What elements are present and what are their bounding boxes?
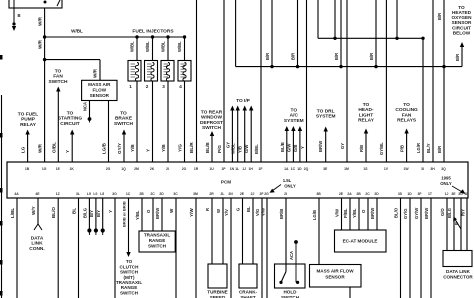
svg-text:BL: BL [246,206,251,212]
ground from ignition switch [12,8,21,31]
transaxle range switch box [139,231,175,252]
wire Y to starting circuit [65,130,74,163]
wire Y right [300,0,307,162]
svg-text:1J: 1J [242,167,246,171]
label to cooling fan relays [395,102,418,124]
svg-text:BL/B: BL/B [280,142,285,152]
svg-text:3S: 3S [398,192,403,196]
svg-text:WINDOW: WINDOW [201,115,223,121]
svg-text:1B: 1B [25,167,30,171]
svg-text:B/Y: B/Y [96,210,101,217]
svg-text:1K: 1K [70,167,75,171]
turbine speed sensor box [207,264,227,298]
wire LG/R [416,37,425,162]
svg-text:1: 1 [129,84,132,89]
svg-text:1L: 1L [235,167,239,171]
label to fuel pump relay [18,111,39,128]
svg-text:1V: 1V [384,167,389,171]
svg-text:W/R: W/R [93,68,98,78]
PCM connector box [7,162,468,198]
svg-text:1A: 1A [284,167,289,171]
svg-text:2G: 2G [264,192,269,196]
left page edge wire [1,95,3,298]
bus B/R horizontal lower [236,66,462,68]
svg-text:3C: 3C [173,192,178,196]
svg-text:1.5L: 1.5L [283,178,292,183]
svg-text:Y: Y [108,210,113,213]
svg-text:BR/W: BR/W [318,141,323,152]
svg-text:B/R: B/R [369,53,374,60]
svg-text:1Z: 1Z [56,192,60,196]
svg-text:ONLY: ONLY [284,183,296,188]
svg-text:L0: L0 [93,192,97,196]
EC-AT module box [335,230,387,252]
svg-text:TO: TO [403,102,410,108]
svg-text:2C: 2C [150,192,155,196]
wire G/W to A/C [286,126,295,162]
wire GY/Y to brake switch [117,130,126,163]
wire drop to upper bus b [395,0,398,40]
svg-text:Y/W: Y/W [189,208,194,217]
svg-text:3E: 3E [451,192,456,196]
svg-text:FAN: FAN [53,74,63,80]
svg-text:GY/Y: GY/Y [117,143,122,154]
svg-text:SENSOR: SENSOR [90,93,110,98]
wire W/R from ignition switch [38,8,45,162]
svg-text:2O: 2O [182,167,187,171]
svg-text:1E: 1E [56,167,61,171]
wire to heated oxygen sensor [455,42,464,67]
svg-text:B/R: B/R [455,54,460,61]
svg-text:2G: 2G [106,167,111,171]
fuel injector 3 [161,37,175,89]
svg-text:2D: 2D [159,192,164,196]
label PCM [221,180,231,185]
svg-text:1U: 1U [209,167,214,171]
svg-text:1G: 1G [42,167,47,171]
wire B/R drop 2 [291,0,300,68]
wire GY/W [414,198,421,298]
svg-text:TO: TO [363,102,370,108]
wire R to turbine sensor [205,198,212,264]
wire B to DLC [453,198,461,251]
svg-text:TO: TO [55,68,62,74]
svg-text:O/BL: O/BL [51,142,56,153]
svg-text:SWITCH: SWITCH [120,290,139,295]
svg-text:CRANK-: CRANK- [239,290,258,295]
svg-text:Y: Y [146,149,151,152]
svg-text:P/B: P/B [400,145,405,152]
svg-text:DATA: DATA [31,235,44,241]
svg-text:1C: 1C [126,192,131,196]
svg-text:BL: BL [72,208,77,214]
svg-text:DATA LINK: DATA LINK [446,269,471,274]
svg-text:ACA: ACA [289,251,294,260]
svg-text:CONNECTOR: CONNECTOR [443,275,473,280]
svg-text:BL/R: BL/R [189,142,194,153]
wire GY to I/P [225,106,234,163]
svg-text:MASS AIR FLOW: MASS AIR FLOW [316,269,354,274]
svg-text:COOLING: COOLING [395,107,418,113]
wire Y/G injector 4 to PCM [178,81,185,162]
svg-text:3O: 3O [112,192,117,196]
fuel injector 1 [128,37,141,89]
wire Y/B injector 1 to PCM [130,81,137,162]
svg-text:BR/W: BR/W [155,208,160,219]
svg-text:1J: 1J [445,192,449,196]
wire W/R to mass air flow sensor [45,60,100,81]
wire drop to upper bus a [333,0,336,40]
wire B/Y to connector a [89,198,98,235]
wire P/BL to EC-AT [343,198,350,230]
svg-text:2B: 2B [356,192,361,196]
mass air flow sensor box (bottom) [310,265,362,288]
svg-text:2L: 2L [221,192,225,196]
svg-text:V/W: V/W [260,208,265,216]
svg-text:Y/B: Y/B [130,144,135,152]
svg-text:SENSOR: SENSOR [325,274,345,279]
svg-text:1995: 1995 [441,176,451,181]
svg-text:SWITCH: SWITCH [148,244,167,249]
svg-text:NCA: NCA [83,102,88,111]
wire W/Y to data link connector [31,198,42,230]
svg-text:2N: 2N [228,192,233,196]
page edge marks [0,55,3,296]
svg-text:W/R: W/R [38,143,43,153]
label to rear window defrost switch [200,109,223,131]
svg-text:FLOW: FLOW [93,88,107,93]
svg-text:3H: 3H [430,167,435,171]
wire LG to fuel pump relay [21,130,30,163]
svg-text:2R: 2R [209,192,214,196]
wire Y/V bottom [224,198,231,298]
svg-text:RANGE: RANGE [149,238,166,243]
wire BL/O left [51,198,58,298]
svg-text:Y/G: Y/G [178,144,183,152]
wire BL [72,198,79,298]
wire P/B to cooling fan relays [400,129,409,163]
wire O to EC-AT [361,198,368,230]
svg-text:2Q: 2Q [304,167,309,171]
svg-text:B/R: B/R [437,146,442,153]
wire BL/R [189,0,197,162]
svg-text:LG/B: LG/B [312,210,317,220]
svg-text:Y/B: Y/B [161,144,166,152]
svg-text:P/BL: P/BL [343,208,348,218]
svg-text:1S: 1S [363,167,368,171]
wire MAF bottom output [349,287,351,298]
svg-text:2E: 2E [339,192,344,196]
svg-text:B/LG: B/LG [447,208,452,218]
svg-text:2C: 2C [365,192,370,196]
wire V/W to EC-AT [335,198,342,230]
bus B/R feeder corner [235,0,237,67]
wire LG/B to MAF bottom [312,198,319,265]
svg-text:2J: 2J [251,192,255,196]
svg-text:2E: 2E [240,192,245,196]
ignition switch (cut off at top) [9,0,62,8]
svg-text:TO REAR: TO REAR [201,109,223,115]
svg-text:ONLY: ONLY [440,181,452,186]
svg-text:L5: L5 [100,192,104,196]
label 1.5L only [270,178,296,193]
svg-text:R: R [205,208,210,211]
svg-text:GY/W: GY/W [414,208,419,219]
PCM bottom pin labels [14,192,469,196]
wire BR/B to clutch switch [122,198,131,257]
svg-text:L/BL: L/BL [10,208,15,218]
wire P/G [217,0,224,162]
svg-text:RELAY: RELAY [20,122,37,128]
svg-text:PUMP: PUMP [21,117,36,123]
svg-text:Y/BL: Y/BL [135,210,140,220]
svg-text:SWITCH: SWITCH [114,121,133,127]
svg-text:TO: TO [291,107,298,113]
svg-text:2D: 2D [374,192,379,196]
node junction W/BL branch [43,35,46,38]
node junction W/R to MAF [43,58,46,61]
label to headlight relay [358,102,375,124]
svg-text:1D: 1D [297,167,302,171]
wire B/LG to DLC [447,198,454,251]
wire NCA from MAF [83,101,92,123]
svg-text:W: W [216,209,221,213]
svg-text:TO: TO [67,110,74,116]
svg-text:B/R: B/R [437,13,442,20]
svg-text:TO I/P: TO I/P [236,98,251,104]
svg-text:PCM: PCM [221,180,231,185]
svg-text:TRANSAXIL: TRANSAXIL [144,233,170,238]
svg-text:BR/W: BR/W [424,208,429,219]
svg-text:2F: 2F [260,192,264,196]
svg-text:BL/O: BL/O [394,207,399,218]
wire B/R drop 3 [334,0,343,68]
svg-text:HOLD: HOLD [283,290,297,295]
wire L/BL [10,198,17,298]
svg-text:B/R: B/R [291,53,296,60]
wire Y/BL to range switch [135,198,142,231]
label to DRL system [316,108,336,119]
svg-text:BR/B or BR/B: BR/B or BR/B [122,201,127,227]
wire LG/B MAF to PCM [102,101,109,163]
svg-text:W/BL: W/BL [130,41,135,52]
svg-text:2I: 2I [284,192,287,196]
svg-text:DEFROST: DEFROST [200,120,223,126]
svg-text:B/R: B/R [334,53,339,60]
svg-text:1Q: 1Q [121,167,126,171]
svg-text:TO DRL: TO DRL [317,108,335,114]
svg-text:4: 4 [179,84,182,89]
wire R/B to headlight relay [359,129,368,163]
wire BL/Y [426,0,433,162]
wire GY right [340,0,347,162]
svg-text:MASS AIR: MASS AIR [88,82,111,87]
svg-text:B/R: B/R [265,53,270,60]
svg-text:4E: 4E [35,192,40,196]
crankshaft sensor box [239,264,258,298]
label to I/P [236,98,251,104]
wire BL/O right [394,198,401,298]
fuel injector 4 [177,37,191,89]
svg-text:BR/W: BR/W [370,208,375,219]
svg-text:1M: 1M [344,167,349,171]
svg-text:CIRCUIT: CIRCUIT [60,121,80,127]
svg-text:LIGHT: LIGHT [359,112,373,118]
svg-text:Y: Y [65,150,70,153]
svg-text:G/B: G/B [293,145,298,152]
svg-text:W/BL: W/BL [161,41,166,52]
wire Y/B to I/P [238,106,247,163]
svg-text:GY/BL: GY/BL [379,142,384,155]
hold switch box [275,264,306,298]
svg-text:G/W: G/W [244,145,249,153]
svg-text:3F: 3F [418,192,422,196]
fuel injector 2 [145,37,158,89]
wire ACA to hold switch [289,240,298,282]
svg-text:A/C: A/C [290,113,299,119]
svg-text:3Q: 3Q [441,167,446,171]
svg-text:SYSTEM: SYSTEM [316,114,336,120]
svg-text:W/R: W/R [38,16,43,26]
svg-text:2: 2 [146,84,149,89]
svg-text:3B: 3B [316,192,321,196]
svg-text:G/O: G/O [440,208,445,216]
svg-text:1E: 1E [464,192,469,196]
wire V/G bottom [255,198,262,298]
wire BR/W right [424,198,431,298]
svg-text:LG/R: LG/R [416,143,421,153]
svg-text:W/Y: W/Y [31,206,36,215]
svg-text:W/BL: W/BL [145,41,150,52]
svg-text:BRAKE: BRAKE [115,116,133,122]
svg-text:SWITCH: SWITCH [202,125,221,131]
wire B/Y to connector b [96,198,105,235]
svg-text:FUEL INJECTORS: FUEL INJECTORS [132,29,174,35]
svg-text:BELOW: BELOW [453,31,471,36]
svg-text:RELAYS: RELAYS [397,118,417,124]
svg-text:4A: 4A [14,192,19,196]
svg-text:W: W [169,208,174,213]
svg-text:LG: LG [21,146,26,153]
wire BR/W to EC-AT [370,198,377,230]
svg-text:3I: 3I [421,167,424,171]
svg-text:TO FUEL: TO FUEL [18,111,39,117]
svg-text:G/W: G/W [286,144,291,152]
label to starting circuit [58,110,82,127]
wire W/BL fuel injector bus [45,29,185,38]
svg-text:3E: 3E [323,167,328,171]
svg-text:1C: 1C [291,167,296,171]
svg-text:GY/G: GY/G [403,209,408,219]
svg-text:SYSTEM: SYSTEM [284,118,304,124]
wire BL to crank sensor [246,198,253,264]
svg-text:Y: Y [300,146,305,149]
svg-text:W/BL: W/BL [177,41,182,52]
svg-text:V/G: V/G [255,209,260,216]
wire BR/W to DRL [318,127,328,163]
svg-text:W/R: W/R [38,39,43,49]
svg-text:TO: TO [120,110,127,116]
bus B/R horizontal upper [318,37,423,39]
svg-text:1W: 1W [404,167,410,171]
svg-text:BL/B: BL/B [205,142,210,153]
wire W/BL to I/P [231,106,240,163]
svg-text:W/BL: W/BL [71,29,83,34]
svg-text:B: B [18,13,21,18]
svg-text:W/BL: W/BL [231,143,236,154]
wire B/LG to connector [82,198,91,235]
svg-text:R/Y: R/Y [461,209,466,216]
svg-text:2M: 2M [134,167,139,171]
hold switch contacts [279,272,299,285]
label fuel injectors [132,29,174,35]
svg-text:2I: 2I [166,167,169,171]
wire G/B to A/C [293,126,302,162]
wire BL/B to A/C [280,126,289,162]
svg-text:Y/V: Y/V [224,209,229,216]
svg-text:BL/Y: BL/Y [426,143,431,153]
mass air flow sensor (top) [82,80,117,100]
svg-text:STARTING: STARTING [58,116,82,122]
svg-text:R/B: R/B [359,145,364,152]
label to clutch switch [116,259,142,295]
svg-text:G: G [236,208,241,211]
wire BR/B to hold switch [279,198,286,272]
wire to upper bus left end [317,0,319,38]
svg-text:3: 3 [162,84,165,89]
svg-text:1R: 1R [194,167,199,171]
wire W bottom [169,198,176,298]
wire GY/G [403,198,410,298]
svg-text:1H: 1H [249,167,254,171]
wire Y/W bottom [189,198,196,298]
svg-text:EC-AT MODULE: EC-AT MODULE [343,239,378,244]
svg-text:GY: GY [340,143,345,149]
wire B/R right [437,0,446,162]
wire GY/BL [379,0,386,162]
svg-text:V/W: V/W [335,209,340,217]
svg-text:2B: 2B [139,192,144,196]
svg-text:BR/B: BR/B [279,209,284,219]
svg-text:1P: 1P [221,167,226,171]
PCM top pin labels [25,167,446,171]
svg-text:1N: 1N [230,167,235,171]
label to brake switch [114,110,133,127]
svg-text:LG/B: LG/B [102,142,107,154]
svg-text:B/BL: B/BL [254,144,259,154]
svg-text:LINK: LINK [31,241,43,247]
wire O to range switch [146,198,153,231]
svg-text:HEAD-: HEAD- [358,107,374,113]
svg-text:CONN.: CONN. [29,246,44,252]
wire G/O to DLC [440,198,447,251]
svg-text:L5: L5 [87,192,91,196]
label to A/C system [284,107,304,124]
wire Y/BL to EC-AT [352,198,359,230]
svg-text:3M: 3M [193,192,198,196]
wire R/Y to DLC [461,198,468,251]
svg-text:2K: 2K [150,167,155,171]
label 1995 only [440,176,465,195]
wire G to crank sensor [236,198,243,264]
wire O/BL to fan switch [51,87,60,163]
wire BL/B to defrost switch [205,131,214,162]
wire Y bottom [108,198,115,298]
svg-text:SWITCH: SWITCH [49,79,68,85]
data link connector box [443,251,473,280]
wire BR/W to range switch [155,198,162,231]
wire Y injector 2 to PCM [146,81,153,162]
